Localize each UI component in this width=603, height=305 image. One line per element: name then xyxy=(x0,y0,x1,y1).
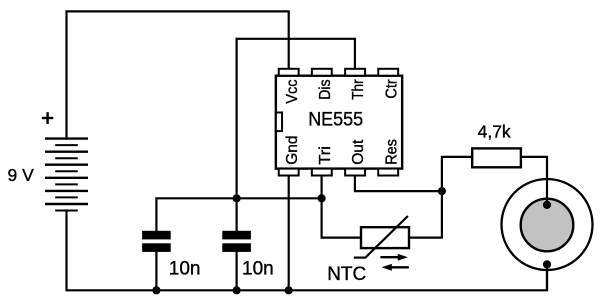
svg-text:NE555: NE555 xyxy=(308,109,363,131)
IC U1 NE555 body xyxy=(276,76,402,169)
arrow left xyxy=(382,264,409,271)
thermistor diagonal xyxy=(366,216,408,258)
wire node to NTC right xyxy=(409,191,442,238)
node dot Out/R/NTC xyxy=(438,187,446,195)
svg-text:9 V: 9 V xyxy=(8,165,35,185)
U1 pin-1 marker notch xyxy=(276,113,282,132)
svg-text:Thr: Thr xyxy=(350,79,367,100)
pin Res (bottom) xyxy=(378,169,398,176)
wire Tri pin to NTC left xyxy=(322,176,361,238)
svg-text:Tri: Tri xyxy=(317,146,334,165)
svg-text:4,7k: 4,7k xyxy=(478,122,511,142)
wire Out pin to node xyxy=(355,176,442,192)
svg-text:NTC: NTC xyxy=(327,264,366,285)
node dot speaker bottom xyxy=(543,260,551,268)
svg-text:Out: Out xyxy=(350,139,367,165)
speaker wire bottom inside xyxy=(546,264,548,290)
capacitor C1 xyxy=(142,231,171,252)
resistor R1 4.7k xyxy=(472,148,521,167)
battery B1 9V xyxy=(45,139,88,211)
node dot speaker top xyxy=(543,201,551,209)
svg-text:Gnd: Gnd xyxy=(284,136,301,165)
svg-text:Vcc: Vcc xyxy=(284,79,301,103)
speaker wire top inside xyxy=(546,179,548,205)
node dot cap2/Thr xyxy=(233,194,241,202)
node dot rail cap1 xyxy=(152,286,160,294)
wire Gnd pin to rail xyxy=(288,176,290,291)
svg-text:Res: Res xyxy=(383,139,400,165)
wire node to resistor left xyxy=(442,157,472,191)
wire cap1 bottom xyxy=(155,252,157,290)
node dot rail cap2 xyxy=(233,286,241,294)
pin Tri (bottom) xyxy=(312,169,332,176)
thermistor NTC body xyxy=(361,227,409,248)
thermistor foot xyxy=(354,257,366,259)
node dot rail gnd xyxy=(285,286,293,294)
arrow right xyxy=(380,254,408,261)
capacitor C2 xyxy=(222,231,251,252)
node dot Tri xyxy=(318,194,326,202)
pin Gnd (bottom) xyxy=(279,169,299,176)
pin Ctr (top) xyxy=(378,69,398,76)
speaker LS1 outer circle xyxy=(502,179,593,270)
battery plus sign xyxy=(42,112,53,124)
wire Thr branch xyxy=(237,39,355,69)
svg-text:Dis: Dis xyxy=(317,79,334,99)
wire bottom rail xyxy=(67,211,548,291)
svg-text:10n: 10n xyxy=(169,258,201,279)
wire cap2 bottom xyxy=(236,252,238,290)
wire battery+ to top rail xyxy=(67,11,289,138)
wire resistor right to speaker top xyxy=(521,157,547,205)
wire cap2 vertical xyxy=(236,39,238,231)
speaker inner disc xyxy=(521,199,574,252)
pin Vcc (top) xyxy=(279,69,299,76)
wire node row y198 xyxy=(156,198,321,231)
pin Thr (top) xyxy=(345,69,365,76)
svg-text:10n: 10n xyxy=(242,258,274,279)
pin Out (bottom) xyxy=(345,169,365,176)
pin Dis (top) xyxy=(312,69,332,76)
svg-text:Ctr: Ctr xyxy=(383,79,400,99)
